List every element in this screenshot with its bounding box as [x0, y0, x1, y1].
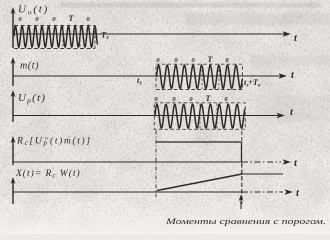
label tz+To row2: [244, 78, 261, 89]
label Rc[Up(t)m(t)]: [16, 136, 92, 148]
svg-text:Моменты сравнения с порогом: Моменты сравнения с порогом.: [165, 217, 326, 226]
axis row5 horizontal t-axis: [13, 188, 300, 199]
label tz row2: [137, 75, 142, 87]
dash-dot marker line left x=156: [155, 131, 157, 198]
svg-text:Uр(t): Uр(t): [18, 92, 46, 105]
axis row4 horizontal t-axis: [13, 158, 298, 169]
svg-text:Uо(t): Uо(t): [18, 4, 49, 17]
phase labels row3: [154, 94, 228, 103]
waveform U0(t) carrier sine: [14, 26, 98, 47]
envelope dashed box row3: [154, 103, 245, 130]
phase segment dividers row1: [63, 26, 80, 48]
phase labels row1 0 0 0 T 0: [18, 14, 90, 23]
axis row3 horizontal t-axis: [13, 107, 294, 118]
phase labels row2: [156, 55, 229, 64]
label Tz row1: [101, 30, 109, 42]
phase segment dividers row2: [202, 65, 219, 89]
axis row2 horizontal t-axis: [13, 70, 295, 81]
label m(t): [20, 61, 39, 72]
svg-text:m(t): m(t): [20, 61, 39, 72]
envelope dashed box row2: [156, 64, 243, 89]
waveform Up(t) reference sine burst: [155, 104, 245, 128]
integrator ramp X(t): [157, 174, 283, 191]
waveform m(t) gated sine burst: [157, 65, 243, 88]
svg-text:X(t)= Rс W(t): X(t)= Rс W(t): [15, 168, 81, 180]
axis row4 vertical arrow: [11, 136, 16, 165]
top bleed-through smudge: [60, 3, 320, 8]
marker line right x=242: [241, 131, 243, 204]
label U0(t): [18, 4, 49, 17]
axis row5 vertical arrow: [11, 177, 16, 204]
phase segment dividers row3: [200, 104, 217, 130]
axis row1 horizontal t-axis: [13, 31, 298, 44]
axis row1 vertical arrow: [11, 7, 16, 48]
envelope dashed box row1: [14, 26, 95, 49]
label Up(t): [18, 92, 46, 105]
label X(t)=RcW(t): [15, 168, 81, 180]
axis row2 vertical arrow: [11, 57, 16, 86]
caption: moments of comparison with threshold: [165, 217, 326, 226]
axis row3 vertical arrow: [11, 90, 16, 122]
comparison moment up-arrow: [239, 195, 244, 210]
correlator output pulse Rc: [156, 142, 242, 162]
